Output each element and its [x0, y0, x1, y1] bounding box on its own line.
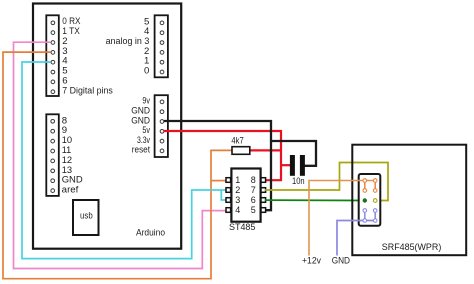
wire: +12v feed (orange)	[309, 181, 375, 256]
labels digital pins 0-7	[62, 16, 113, 97]
IC U1 ST485 body	[231, 169, 260, 222]
wire: Arduino pin4 to ST485 pins 2,3 RE/DE (cyan)	[22, 62, 226, 259]
wire: ST485 pin6 to SRF485 A (green)	[265, 199, 365, 201]
labels digital pins 8-13 GND aref	[62, 115, 83, 195]
svg-text:ST485: ST485	[229, 222, 255, 233]
svg-text:7: 7	[251, 185, 256, 195]
resistor R1 4k7	[231, 136, 249, 155]
SRF485 connector J1	[359, 174, 381, 226]
usb connector box	[73, 200, 99, 235]
wire: Arduino pin2 to ST485 pin4 DI (pink)	[14, 42, 227, 268]
capacitor C1 10n	[290, 155, 305, 187]
svg-text:aref: aref	[62, 185, 79, 196]
SRF485 connector pins A/B row	[363, 198, 377, 202]
Arduino board outline	[33, 4, 181, 249]
svg-text:analog in 3: analog in 3	[106, 36, 150, 47]
SRF485 module box	[352, 145, 466, 256]
svg-text:reset: reset	[132, 145, 150, 156]
labels analog in 5-0	[106, 16, 150, 76]
svg-text:7 Digital pins: 7 Digital pins	[62, 86, 113, 97]
svg-text:+12v: +12v	[302, 256, 321, 267]
svg-text:1: 1	[235, 175, 240, 185]
analog in header	[155, 15, 168, 77]
svg-text:usb: usb	[80, 211, 93, 222]
wire: GND net (black)	[164, 121, 316, 210]
SRF485 connector pins +12v rows	[363, 179, 377, 193]
label GND	[332, 256, 350, 267]
svg-text:5: 5	[251, 205, 256, 215]
wire: ST485 pin7 to SRF485 B (olive)	[265, 163, 388, 201]
svg-text:10n: 10n	[292, 176, 305, 187]
SRF485 connector pins GND rows	[363, 209, 377, 223]
svg-text:3: 3	[235, 195, 240, 205]
svg-text:4k7: 4k7	[231, 136, 243, 147]
power header	[155, 95, 168, 157]
svg-text:Arduino: Arduino	[136, 227, 165, 238]
svg-text:SRF485(WPR): SRF485(WPR)	[382, 242, 442, 253]
ST485 pin numbers	[235, 175, 256, 215]
wire: GND feed (purple)	[337, 211, 375, 256]
ST485 label	[229, 222, 255, 233]
svg-text:GND: GND	[332, 256, 350, 267]
svg-text:0: 0	[144, 66, 149, 77]
digital pins header 0-7	[46, 15, 59, 96]
svg-text:6: 6	[251, 195, 256, 205]
svg-text:8: 8	[251, 175, 256, 185]
ST485 right pins 8-5	[261, 178, 266, 213]
labels power header	[131, 96, 150, 156]
wire: Arduino pin3 to ST485 pin1 RO and 4k7 (orange)	[3, 52, 232, 279]
svg-text:2: 2	[235, 185, 240, 195]
svg-text:4: 4	[235, 205, 240, 215]
ST485 left pins 1-4	[226, 178, 231, 213]
digital pins header 8-13 GND aref	[46, 114, 59, 196]
Arduino label	[136, 227, 165, 238]
wire: 5v net (red)	[164, 131, 291, 180]
label +12v	[302, 256, 321, 267]
